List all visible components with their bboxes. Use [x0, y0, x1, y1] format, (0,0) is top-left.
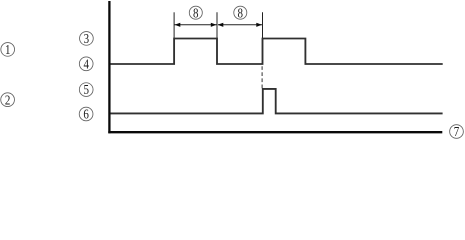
svg-text:6: 6 — [83, 108, 89, 123]
label circle 1 — [1, 43, 15, 58]
horizontal axis — [108, 131, 442, 133]
svg-text:8: 8 — [238, 6, 244, 21]
svg-text:7: 7 — [454, 125, 460, 140]
label circle 7 — [450, 125, 464, 140]
label circle 8 (span 2) — [234, 6, 247, 21]
arrowhead left 2 — [218, 23, 224, 27]
label circle 6 — [79, 107, 93, 122]
vertical axis — [108, 1, 110, 133]
arrowhead right 1 — [211, 23, 217, 27]
label circle 4 — [79, 57, 93, 72]
svg-text:3: 3 — [84, 32, 90, 47]
dashed projection line — [261, 66, 263, 89]
svg-text:8: 8 — [193, 6, 199, 21]
waveform 1 (signal 3/4) — [110, 39, 442, 65]
svg-text:1: 1 — [5, 43, 11, 58]
dimension line 2 — [218, 24, 262, 26]
label circle 3 — [80, 32, 94, 47]
dimension line 1 — [175, 24, 217, 26]
extension line at x=174 — [173, 12, 175, 38]
arrowhead right 2 — [256, 23, 262, 27]
extension line at x=217 — [216, 12, 218, 38]
arrowhead left 1 — [175, 23, 181, 27]
waveform 2 (signal 5/6) — [110, 89, 442, 114]
label circle 5 — [79, 83, 93, 98]
svg-text:5: 5 — [83, 83, 89, 98]
label circle 8 (span 1) — [189, 6, 202, 21]
extension line at x=262.4 — [262, 12, 264, 38]
label circle 2 — [1, 93, 15, 108]
svg-text:4: 4 — [83, 57, 89, 72]
svg-text:2: 2 — [5, 93, 11, 108]
